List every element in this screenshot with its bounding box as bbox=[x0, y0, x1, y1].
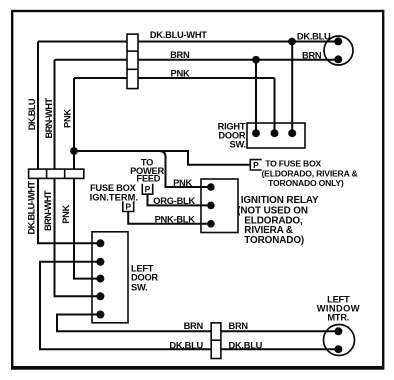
svg-text:BRN: BRN bbox=[229, 321, 249, 331]
svg-text:(ELDORADO, RIVIERA &: (ELDORADO, RIVIERA & bbox=[262, 168, 358, 178]
svg-text:DK.BLU: DK.BLU bbox=[297, 32, 331, 42]
svg-text:BRN: BRN bbox=[184, 321, 204, 331]
svg-text:DOOR: DOOR bbox=[131, 273, 158, 283]
svg-text:BRN-WHT: BRN-WHT bbox=[44, 98, 54, 139]
svg-text:MTR.: MTR. bbox=[327, 312, 349, 322]
svg-text:P: P bbox=[253, 160, 259, 170]
svg-text:DK.BLU: DK.BLU bbox=[229, 341, 263, 351]
svg-text:PNK: PNK bbox=[173, 178, 192, 188]
svg-text:PNK: PNK bbox=[63, 109, 73, 128]
svg-text:P: P bbox=[145, 184, 151, 194]
svg-text:P: P bbox=[125, 202, 131, 212]
svg-text:IGNITION RELAY: IGNITION RELAY bbox=[241, 195, 319, 206]
svg-text:PNK: PNK bbox=[171, 68, 190, 78]
svg-text:ORG-BLK: ORG-BLK bbox=[153, 196, 195, 206]
svg-text:DK.BLU-WHT: DK.BLU-WHT bbox=[27, 181, 37, 235]
svg-text:PNK: PNK bbox=[61, 204, 71, 223]
svg-text:DK.BLU: DK.BLU bbox=[27, 98, 37, 130]
svg-text:SW.: SW. bbox=[131, 282, 147, 292]
svg-text:TORONADO ONLY): TORONADO ONLY) bbox=[268, 178, 344, 188]
svg-text:BRN: BRN bbox=[302, 50, 322, 60]
svg-text:SW.: SW. bbox=[230, 140, 246, 150]
svg-text:TO FUSE BOX: TO FUSE BOX bbox=[265, 159, 321, 169]
svg-text:PNK-BLK: PNK-BLK bbox=[155, 215, 196, 225]
svg-text:FEED: FEED bbox=[136, 173, 160, 183]
svg-text:TORONADO): TORONADO) bbox=[244, 235, 304, 246]
svg-text:BRN-WHT: BRN-WHT bbox=[43, 190, 53, 231]
svg-text:DK.BLU: DK.BLU bbox=[169, 341, 203, 351]
svg-text:DK.BLU-WHT: DK.BLU-WHT bbox=[150, 30, 207, 40]
svg-text:BRN: BRN bbox=[170, 50, 190, 60]
